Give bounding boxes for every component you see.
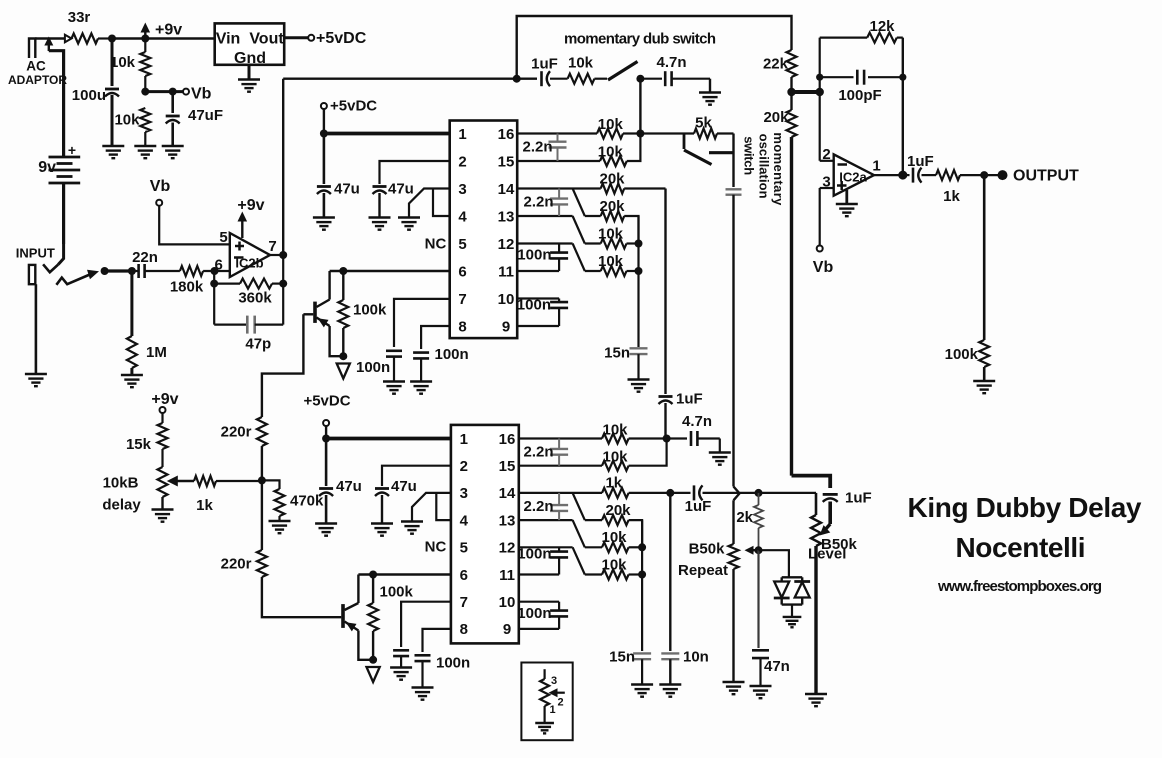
svg-text:10k: 10k [601, 529, 627, 546]
capacitor 100n a IC2 [550, 547, 568, 574]
diode pair D1 D2 [774, 577, 810, 604]
100k Q2 label [380, 584, 414, 601]
node 100pF right [899, 74, 906, 81]
node repeat row [666, 489, 674, 497]
svg-text:2: 2 [822, 146, 830, 163]
OUTPUT label [1013, 168, 1079, 185]
node Q1 emitter [339, 352, 347, 360]
svg-text:100n: 100n [517, 605, 551, 622]
ground pin8 IC1 [410, 382, 432, 394]
svg-text:100n: 100n [517, 247, 551, 264]
wire pin3 gnd IC2 [412, 493, 451, 522]
capacitor 100n b IC1 [550, 299, 568, 327]
trimmer pin 2 label [558, 697, 564, 709]
capacitor 15n IC1 [630, 348, 648, 379]
diag pin13 IC1 [573, 216, 585, 244]
wire dub node down [639, 79, 641, 134]
wire pin13 row IC1 [517, 215, 572, 217]
ground under 47uF [162, 146, 184, 158]
node 22k-20k [787, 88, 795, 96]
input connection arrow [56, 270, 99, 285]
trimmer pin 3 label [551, 675, 557, 687]
svg-text:11: 11 [498, 263, 514, 280]
10k p15 IC2 label [602, 449, 628, 466]
svg-text:15: 15 [499, 458, 516, 475]
ground diodes [783, 605, 802, 628]
wire fb to level cap [792, 476, 831, 488]
svg-text:2: 2 [460, 458, 468, 475]
wire pin6 IC2 [358, 573, 451, 575]
transistor Q1 [315, 300, 330, 328]
op-amp IC2b [230, 233, 270, 277]
1k IC2 label [605, 475, 622, 492]
ground pin7 IC1 [383, 382, 405, 394]
node output branch [980, 171, 988, 179]
47u IC1 b label [388, 181, 414, 198]
resistor 12k [820, 33, 903, 43]
svg-text:1uF: 1uF [531, 56, 558, 73]
svg-text:15k: 15k [126, 436, 152, 453]
NC label IC1 [425, 236, 447, 253]
capacitor 47n [752, 650, 769, 686]
pin 6 label [215, 257, 223, 274]
2.2n b IC1 label [523, 194, 553, 211]
svg-text:47n: 47n [764, 658, 790, 675]
wire IC2a out [874, 174, 903, 176]
1uF repeat label [685, 498, 712, 515]
svg-text:+: + [68, 142, 76, 158]
resistor 10k d IC1 [585, 266, 639, 276]
22k label [763, 56, 789, 73]
svg-text:1uF: 1uF [845, 490, 872, 507]
svg-text:9: 9 [503, 621, 511, 638]
ground B50k repeat [723, 682, 745, 694]
svg-text:10k: 10k [598, 116, 624, 133]
4.7n IC2 label [682, 413, 712, 430]
IC2 pin numbers [460, 431, 516, 638]
20k fb label [763, 109, 789, 126]
resistor 180k [180, 266, 203, 276]
svg-text:100n: 100n [356, 359, 390, 376]
node A (33r junction) [108, 35, 116, 43]
arrow down Q2 [367, 667, 380, 682]
wire Vb tap [145, 90, 183, 93]
180k label [170, 279, 204, 296]
capacitor 2.2n a IC1 [549, 134, 567, 162]
capacitor 100n pin7 IC1 [386, 351, 402, 382]
svg-text:5: 5 [460, 540, 468, 557]
battery + label [68, 142, 76, 158]
ground 15n IC1 [628, 380, 650, 392]
osc switch stub [683, 134, 686, 150]
svg-text:13: 13 [498, 208, 515, 225]
ground pin3 IC1 [398, 218, 420, 230]
wire pin2 [820, 160, 834, 162]
svg-text:10k: 10k [602, 421, 628, 438]
wire pin11 row IC1 [517, 270, 559, 272]
svg-text:10k: 10k [598, 225, 624, 242]
100n pin8 IC1 label [435, 346, 469, 363]
svg-text:10k: 10k [602, 449, 628, 466]
svg-text:2: 2 [458, 153, 466, 170]
node 360k right [279, 280, 287, 288]
pin 1 label [872, 158, 880, 175]
resistor 220r a [257, 417, 267, 550]
wire pin16 row IC1 [517, 132, 597, 134]
svg-text:3: 3 [551, 675, 557, 687]
node 10kc IC2 [638, 543, 646, 551]
svg-text:10n: 10n [683, 649, 709, 666]
node 10kc IC1 [635, 240, 643, 248]
wire AC plug to battery [49, 51, 64, 156]
resistor 1k IC2 [602, 488, 670, 498]
wire +5v to pin1 IC2 [326, 437, 451, 441]
resistor 10k c IC2 [585, 542, 642, 552]
ground 470k [269, 521, 291, 533]
2.2n a IC1 label [522, 139, 552, 156]
4.7n dub label [656, 54, 686, 71]
resistor 22k [787, 50, 797, 92]
10kB label [103, 475, 139, 492]
svg-text:47uF: 47uF [188, 107, 223, 124]
wire pin4 IC1 [433, 189, 450, 217]
resistor 10k dub [568, 74, 607, 84]
svg-text:33r: 33r [68, 9, 91, 26]
wire pin15 row IC2 [519, 465, 602, 467]
1uF out label [907, 153, 934, 170]
resistor 100k Q2 [368, 575, 378, 660]
capacitor 100u [105, 39, 119, 147]
node mix IC1 [636, 130, 644, 138]
svg-text:www.freestompboxes.org: www.freestompboxes.org [937, 578, 1102, 595]
resistor 20k b IC1 [585, 211, 639, 244]
svg-text:2.2n: 2.2n [523, 444, 553, 461]
node 100pF left [816, 74, 823, 81]
100n label pin7 IC1 [356, 359, 390, 376]
resistor 2k [754, 493, 763, 550]
2.2n b IC2 label [523, 498, 553, 515]
resistor 470k [262, 480, 285, 521]
100n pin8 IC2 label [436, 655, 470, 672]
IC2b minus input [234, 256, 244, 259]
svg-text:100n: 100n [436, 655, 470, 672]
svg-text:ADAPTOR: ADAPTOR [8, 73, 67, 87]
svg-text:10k: 10k [598, 253, 624, 270]
svg-text:20k: 20k [599, 198, 625, 215]
wire pin12 row IC2 [519, 546, 573, 548]
wire pin3 [820, 187, 834, 189]
ground under INPUT [25, 374, 47, 386]
svg-text:IC2a: IC2a [839, 170, 867, 185]
wire pin14 row IC1 [517, 187, 601, 189]
capacitor 100n b IC2 [550, 602, 568, 629]
diag pin14 IC2 [573, 493, 585, 520]
resistor 1k delay [194, 476, 262, 486]
capacitor 47u IC1 a [317, 134, 331, 218]
svg-text:100n: 100n [435, 346, 469, 363]
title Nocentelli [956, 532, 1086, 563]
capacitor 100n pin8 IC1 [413, 353, 429, 382]
10n label [683, 649, 709, 666]
svg-text:100k: 100k [380, 584, 414, 601]
wire pin7 output [270, 254, 283, 256]
ground under 1M [121, 375, 143, 387]
ground B50k level [805, 694, 827, 706]
B50k level label [821, 536, 858, 553]
47p label [245, 336, 271, 353]
node IC2a out [898, 171, 907, 180]
pin 3 label [822, 174, 830, 191]
wire mix to 5k [640, 132, 694, 134]
terminal +5vDC IC1 [321, 103, 327, 109]
svg-text:7: 7 [458, 291, 466, 308]
15n IC1 label [604, 345, 630, 362]
op-amp IC2a [834, 154, 874, 195]
trimmer pot [540, 669, 549, 723]
wire pin7 IC1 [394, 299, 450, 347]
svg-text:22n: 22n [132, 249, 158, 266]
ground 47u IC1 a [313, 218, 335, 230]
regulator U3 box [215, 23, 285, 64]
svg-text:1k: 1k [943, 188, 960, 205]
svg-text:3: 3 [460, 485, 468, 502]
node B (+9v) [141, 35, 149, 43]
svg-text:+5vDC: +5vDC [303, 393, 350, 410]
regulator pin labels [216, 31, 285, 68]
svg-text:1: 1 [550, 704, 556, 716]
svg-text:47u: 47u [388, 181, 414, 198]
node Q1 collector [339, 267, 347, 275]
svg-text:9: 9 [502, 318, 510, 335]
svg-text:15: 15 [498, 153, 515, 170]
100n a IC2 label [517, 546, 551, 563]
resistor 10k p15 IC2 [602, 439, 667, 471]
1uF bus label [676, 391, 703, 408]
1k delay label [196, 497, 213, 514]
wire input node [105, 269, 132, 272]
svg-text:Level: Level [808, 546, 846, 563]
capacitor 2.2n b IC2 [550, 493, 568, 520]
wire pin9 row IC2 [519, 628, 559, 630]
resistor 10k c IC1 [585, 239, 639, 249]
wire IC2a fb left [819, 38, 821, 161]
node repeat wiper [755, 546, 763, 554]
terminal +5vDC regulator [308, 35, 314, 41]
svg-text:1: 1 [460, 431, 468, 448]
svg-text:8: 8 [460, 621, 468, 638]
svg-text:B50k: B50k [689, 541, 726, 558]
svg-text:180k: 180k [170, 279, 204, 296]
47u IC2 b label [391, 478, 417, 495]
wire pin4 IC2 [436, 493, 451, 520]
battery switch contact [43, 244, 64, 272]
svg-text:Vout: Vout [249, 31, 284, 48]
capacitor 1uF level [823, 494, 838, 524]
100pF label [838, 87, 881, 104]
Repeat label [678, 562, 728, 579]
capacitor 47u IC2 a [319, 439, 333, 524]
momentary dub switch label [564, 31, 716, 48]
Level label [808, 546, 846, 563]
wire pin9 row IC1 [517, 325, 559, 327]
resistor 10k p15 IC1 [600, 134, 640, 167]
Q1 collector wire [328, 271, 330, 300]
svg-text:5: 5 [458, 236, 466, 253]
100k out label [945, 346, 979, 363]
node Q2 emitter [369, 656, 377, 664]
svg-text:22k: 22k [763, 56, 789, 73]
wire osc cap down [734, 195, 740, 540]
ground under 10k lower [134, 146, 156, 158]
node input E [101, 267, 109, 275]
47n label [764, 658, 790, 675]
svg-text:10k: 10k [601, 556, 627, 573]
svg-text:10kB: 10kB [103, 475, 139, 492]
arrow down Q1 [337, 364, 350, 379]
svg-text:10k: 10k [110, 54, 136, 71]
svg-text:14: 14 [498, 181, 515, 198]
regulator ground [238, 65, 260, 92]
node Q2 collector [369, 571, 377, 579]
svg-text:4: 4 [458, 208, 467, 225]
svg-text:360k: 360k [238, 290, 272, 307]
svg-text:2.2n: 2.2n [522, 139, 552, 156]
10k upper label [110, 54, 136, 71]
svg-text:16: 16 [498, 126, 515, 143]
svg-text:10k: 10k [114, 112, 140, 129]
100n a IC1 label [517, 247, 551, 264]
svg-text:7: 7 [460, 594, 468, 611]
feedback left wire [213, 271, 215, 325]
capacitor 47uF [166, 92, 180, 146]
svg-text:20k: 20k [605, 502, 631, 519]
wire sum bus IC2 [641, 520, 643, 651]
svg-text:470k: 470k [290, 493, 324, 510]
svg-text:+9v: +9v [151, 391, 178, 408]
svg-text:4.7n: 4.7n [656, 54, 686, 71]
wire 180k to pin6 [203, 270, 230, 272]
svg-text:2.2n: 2.2n [523, 194, 553, 211]
node IC2b output [279, 251, 287, 259]
svg-text:1uF: 1uF [685, 498, 712, 515]
10k d IC2 label [601, 556, 627, 573]
diag pin14 IC1 [573, 189, 585, 217]
svg-text:10k: 10k [598, 143, 624, 160]
node 10kd IC2 [638, 571, 646, 579]
IC1 pin numbers [458, 126, 515, 335]
+9v arrow [141, 23, 151, 39]
svg-text:5: 5 [219, 229, 227, 246]
pin 2 label [822, 146, 830, 163]
+5vDC IC2 label [303, 393, 350, 410]
svg-text:6: 6 [458, 263, 466, 280]
svg-text:Vin: Vin [216, 31, 241, 48]
svg-text:OUTPUT: OUTPUT [1013, 168, 1079, 185]
polarity triangle [65, 35, 72, 43]
resistor 10k p16 IC1 [597, 129, 640, 139]
10kB delay wiper [167, 476, 194, 487]
svg-text:7: 7 [268, 238, 276, 255]
node mix IC2 [663, 435, 671, 443]
resistor 5k [694, 129, 734, 139]
IC2b plus input [235, 242, 244, 251]
resistor 1k out [936, 170, 1000, 180]
wire pin15 row IC1 [517, 160, 600, 162]
ground 47u IC2 a [315, 524, 337, 536]
IC2 box [451, 425, 519, 644]
capacitor 2.2n b IC1 [550, 189, 568, 217]
ground 47u IC2 b [371, 524, 393, 536]
10k c IC2 label [601, 529, 627, 546]
+5vDC IC1 label [330, 98, 377, 115]
pot 10kB delay [158, 467, 168, 510]
svg-text:1uF: 1uF [676, 391, 703, 408]
title url [937, 578, 1102, 595]
svg-text:Vb: Vb [150, 178, 171, 195]
+5vDC regulator label [316, 30, 367, 47]
resistor 10k p16 IC2 [602, 434, 667, 444]
svg-text:100n: 100n [517, 546, 551, 563]
+9v delay label [151, 391, 178, 408]
10k p16 IC2 label [602, 421, 628, 438]
svg-text:INPUT: INPUT [16, 246, 55, 261]
IC1 box [450, 121, 518, 339]
22n label [132, 249, 158, 266]
470k label [290, 493, 324, 510]
svg-text:1uF: 1uF [907, 153, 934, 170]
resistor 100k out [979, 175, 989, 381]
wire pin13 row IC2 [519, 519, 573, 521]
INPUT label [16, 246, 55, 261]
AC adaptor jack J2 [29, 39, 65, 59]
svg-text:momentary dub switch: momentary dub switch [564, 31, 716, 48]
wire pin3 gnd IC1 [409, 189, 450, 218]
momentary oscillation switch label [742, 132, 787, 206]
delay label [102, 497, 141, 514]
node 2k top [755, 489, 763, 497]
svg-text:15n: 15n [609, 649, 635, 666]
wire Vout to +5vDC [284, 36, 308, 39]
node D [169, 88, 177, 96]
terminal +5vDC IC2 [323, 420, 329, 426]
svg-text:switch: switch [742, 136, 757, 175]
svg-text:20k: 20k [599, 170, 625, 187]
capacitor 1uF out [903, 168, 936, 183]
diag pin13 IC2 [573, 520, 585, 547]
resistor 220r b [257, 550, 341, 617]
trimmer wiper [549, 688, 565, 697]
terminal Vb IC2a [817, 246, 823, 252]
wire sum bus IC1 [637, 216, 639, 347]
capacitor osc [726, 189, 742, 194]
node 220r [258, 476, 266, 484]
+9v arrow IC2b [238, 212, 248, 239]
wire pin16 row IC2 [519, 437, 602, 439]
wire 47n [757, 550, 759, 648]
terminal Vb IC2b [156, 200, 162, 206]
svg-text:10: 10 [499, 594, 516, 611]
ground pin3 IC2 [401, 522, 423, 534]
svg-text:Repeat: Repeat [678, 562, 728, 579]
capacitor 100pF [820, 70, 903, 85]
resistor 20k IC2 [585, 515, 642, 547]
wire Vb IC2a [819, 188, 821, 246]
svg-text:47u: 47u [336, 478, 362, 495]
100k Q1 label [353, 302, 387, 319]
20k b IC1 label [599, 198, 625, 215]
wire +9v rail [112, 37, 215, 39]
Vb label IC2b [150, 178, 171, 195]
